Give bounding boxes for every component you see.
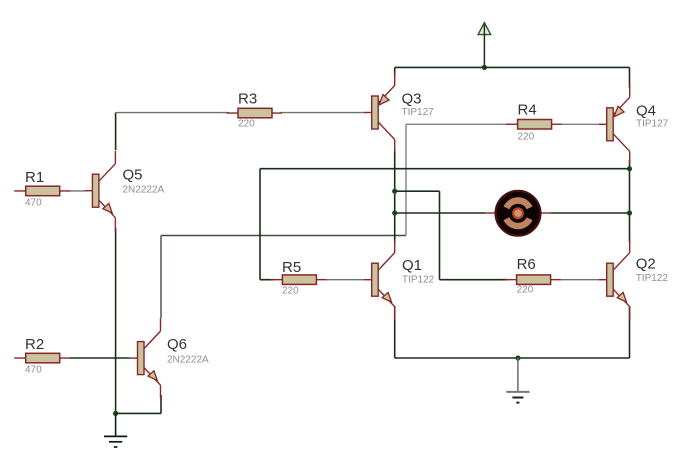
wire motor right to node B (551, 212, 630, 214)
transistor Q5 NPN 2N2222A (84, 151, 164, 231)
wire motor right pin (540, 212, 551, 214)
svg-text:Q5: Q5 (123, 166, 143, 183)
wire motor left pin (485, 212, 496, 214)
junction node A to motor (392, 210, 397, 215)
wire R6 right to Q2 base (560, 279, 600, 281)
ground GND middle (506, 358, 529, 403)
svg-text:TIP127: TIP127 (636, 119, 669, 130)
svg-text:Q3: Q3 (402, 91, 422, 108)
svg-text:R3: R3 (238, 91, 257, 108)
svg-text:R2: R2 (25, 336, 44, 353)
resistor R3 (227, 91, 283, 130)
junction emitter ground node (113, 411, 118, 416)
svg-text:220: 220 (518, 132, 535, 143)
wire bottom emitter rail (395, 357, 630, 359)
wire node A vertical Q3/Q1 collectors (394, 150, 396, 242)
wire node B vertical Q4/Q2 collectors (629, 160, 631, 242)
wire Q6 emitter return (116, 412, 161, 414)
transistor Q1 NPN TIP122 (364, 240, 435, 320)
svg-text:R5: R5 (282, 259, 301, 276)
svg-text:R4: R4 (518, 102, 537, 119)
wire Q2 emitter drop (629, 306, 631, 358)
resistor R5 (271, 259, 327, 297)
wire into R6 left pin (440, 279, 508, 281)
svg-text:470: 470 (25, 198, 42, 209)
svg-text:Q1: Q1 (402, 257, 422, 274)
wire top VCC rail (395, 66, 630, 68)
wire node A to motor left (395, 212, 486, 214)
transistor Q6 NPN 2N2222A (130, 318, 210, 398)
wire node A feedback horizontal (395, 190, 440, 192)
junction bottom rail to ground (515, 355, 520, 360)
svg-text:220: 220 (517, 284, 534, 295)
svg-text:Q6: Q6 (167, 336, 187, 353)
wire to R3 left (116, 112, 229, 114)
wire rail right drop to Q4 emitter (629, 67, 631, 88)
wire feedback vertical to R5 (259, 169, 261, 280)
svg-text:2N2222A: 2N2222A (123, 185, 165, 196)
transistor Q4 PNP TIP127 (599, 84, 669, 164)
svg-text:R1: R1 (25, 169, 44, 186)
svg-text:TIP122: TIP122 (402, 275, 435, 286)
transistor Q3 PNP TIP127 (364, 73, 434, 153)
wire into R5 left pin (260, 279, 274, 281)
wire Q5 collector up (115, 113, 117, 150)
wire Q6 collector horizontal (161, 235, 406, 237)
ground GND left (104, 413, 127, 447)
transistor Q2 NPN TIP122 (599, 240, 669, 320)
wire vertical to R4 (405, 124, 407, 235)
junction node A to R6 branch (392, 189, 397, 194)
wire Q6 emitter drop (160, 395, 162, 413)
svg-text:470: 470 (25, 365, 42, 376)
wire feedback vertical to R6 (439, 191, 441, 280)
resistor R6 (505, 256, 560, 296)
svg-text:Q2: Q2 (636, 256, 656, 273)
junction node B to motor (627, 210, 632, 215)
wire R4 right to Q4 base (561, 123, 600, 125)
svg-text:2N2222A: 2N2222A (167, 355, 209, 366)
svg-text:220: 220 (238, 119, 255, 130)
svg-text:TIP127: TIP127 (402, 107, 435, 118)
svg-text:R6: R6 (517, 256, 536, 273)
wire Q1 emitter drop (394, 306, 396, 358)
svg-text:220: 220 (282, 286, 299, 297)
wire R2 to Q6 base (70, 357, 130, 359)
svg-text:Q4: Q4 (636, 103, 656, 120)
junction power rail (482, 65, 487, 70)
motor M1 DC motor (496, 191, 541, 236)
wire R5 right to Q1 base (326, 279, 364, 281)
resistor R4 (506, 102, 561, 143)
resistor R1 (14, 169, 69, 209)
wire R1 to Q5 base (69, 190, 85, 192)
svg-text:TIP122: TIP122 (636, 273, 669, 284)
power symbol VCC arrow (478, 23, 491, 68)
resistor R2 (14, 336, 69, 376)
wire Q5 emitter down to ground node (115, 228, 117, 413)
wire into R4 left pin (406, 123, 509, 125)
wire rail left drop to Q3 emitter (394, 67, 396, 76)
wire Q6 collector up (160, 236, 162, 319)
wire node B feedback horizontal (260, 168, 630, 170)
wire R3 right to Q3 base (281, 112, 365, 114)
junction node B to R5 branch (627, 166, 632, 171)
